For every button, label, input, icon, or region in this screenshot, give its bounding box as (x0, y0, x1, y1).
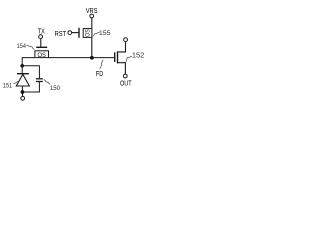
VRS terminal circle (90, 14, 94, 18)
capacitor 150 top plate (36, 78, 43, 80)
transistor 152 gate bar (114, 52, 116, 62)
FD bus wire (49, 57, 115, 59)
svg-text:151: 151 (3, 83, 13, 90)
TX gate stub (40, 39, 42, 47)
svg-text:150: 150 (50, 85, 60, 92)
photodiode 151 triangle (16, 74, 29, 86)
transistor 152 drain wire (118, 42, 126, 52)
drain terminal circle (124, 38, 128, 42)
transistor 154 gate bar (36, 46, 47, 48)
FD junction dot (90, 56, 94, 60)
leader 154 (26, 45, 34, 49)
RST source wire down to FD (91, 37, 93, 57)
transistor 152 channel bar (117, 51, 119, 63)
wire node A to capacitor branch (22, 66, 39, 79)
transistor 155 OS box (83, 29, 92, 38)
node A junction dot (PD cathode node) (20, 64, 24, 68)
svg-text:RST: RST (55, 31, 67, 38)
svg-text:155: 155 (99, 30, 111, 37)
diode bottom wire (21, 86, 23, 90)
photodiode 151 cathode bar (17, 73, 29, 75)
OUT terminal circle (123, 74, 127, 78)
capacitor 150 bottom plate (36, 81, 43, 83)
svg-text:FD: FD (96, 71, 103, 78)
RST terminal circle (68, 31, 72, 35)
svg-text:154: 154 (17, 43, 26, 50)
leader 152 (126, 56, 132, 61)
transistor 155 gate bar (78, 28, 80, 38)
svg-text:OS: OS (85, 29, 92, 36)
leader 151 (14, 81, 19, 83)
RST gate wire (72, 32, 79, 34)
photodiode top node wire from TX source (22, 58, 35, 64)
leader 155 (93, 32, 100, 36)
TX terminal circle (39, 35, 43, 39)
terminal stub below node B (22, 92, 24, 96)
bottom open terminal (21, 96, 25, 100)
transistor 154 OS box (35, 51, 49, 58)
svg-text:152: 152 (132, 53, 145, 60)
FD leader (100, 60, 103, 69)
svg-text:OS: OS (38, 52, 47, 59)
wire node B to capacitor bottom (22, 82, 39, 92)
svg-text:TX: TX (38, 28, 45, 35)
transistor 152 source wire (118, 63, 126, 74)
leader 150 (44, 80, 50, 85)
VRS drain wire (91, 18, 93, 29)
svg-text:OUT: OUT (120, 79, 132, 88)
wire node A down to diode (21, 66, 23, 74)
node B junction dot (PD anode node) (21, 90, 25, 94)
